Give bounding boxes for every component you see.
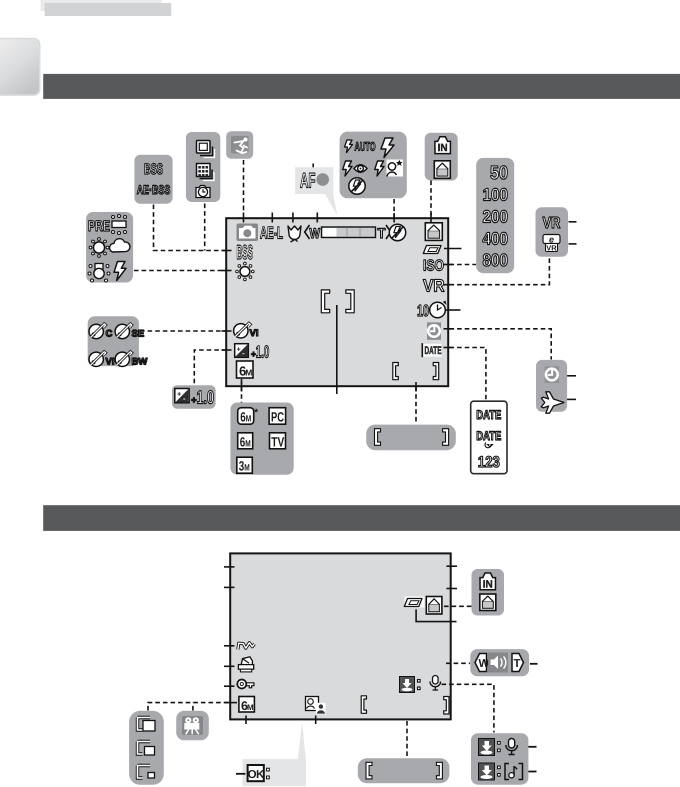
tick ISO row <box>444 264 454 266</box>
icon WB flash <box>114 262 126 281</box>
centre line below focus brackets <box>336 305 338 394</box>
wire BSS boxes to BSS row <box>154 204 227 251</box>
box BSS / AE-BSS <box>134 155 172 204</box>
box date imprint <box>471 401 507 474</box>
icon size PC <box>269 408 286 425</box>
icon interval timer <box>196 186 210 198</box>
svg-text:T: T <box>378 225 386 241</box>
exposure comp indicator <box>235 342 270 361</box>
svg-text:PC: PC <box>271 409 284 424</box>
tick WB row <box>222 270 232 272</box>
wire color-options box to row <box>140 330 227 332</box>
monitor screen 1 <box>226 218 448 386</box>
box image size options <box>230 403 293 475</box>
svg-text:TV: TV <box>271 434 284 449</box>
BSS indicator <box>237 242 254 264</box>
wire ISO to ISO box <box>450 264 477 266</box>
icon flash red-eye <box>343 161 367 176</box>
header small light bar <box>41 0 162 11</box>
svg-text:BSS: BSS <box>144 161 163 178</box>
svg-text:PRE: PRE <box>88 218 110 235</box>
svg-text:VR: VR <box>546 244 557 253</box>
tick 6M row screen2 <box>225 702 238 704</box>
wire exposure box to row <box>194 350 226 385</box>
AF focus bubble <box>295 167 337 216</box>
card indicator 2 <box>426 597 442 615</box>
icon size TV <box>270 433 286 450</box>
svg-text:VR: VR <box>543 215 561 232</box>
svg-text:+: + <box>237 346 241 353</box>
tick card column <box>430 213 432 223</box>
right edge tick b <box>447 588 458 590</box>
wire VR to VR box <box>450 258 550 285</box>
frame number brackets 2 <box>361 696 449 714</box>
svg-text:800: 800 <box>483 250 509 270</box>
svg-text:AUTO: AUTO <box>355 140 376 154</box>
print order indicator <box>238 657 253 672</box>
svg-text:*: * <box>254 408 258 419</box>
bottom tick below volume icon <box>315 716 317 725</box>
battery indicator <box>423 246 441 254</box>
wire 6M to size box <box>241 379 243 403</box>
wire sports-assist to mode icon <box>243 160 245 213</box>
box colour options <box>88 316 139 366</box>
icon SD card (box) <box>434 161 450 179</box>
image size indicator <box>237 361 254 379</box>
svg-text:1.0: 1.0 <box>256 342 269 361</box>
DATE indicator <box>422 343 442 357</box>
OK info bubble <box>243 722 306 787</box>
OK stub line <box>236 773 246 775</box>
left edge tick a <box>224 566 235 568</box>
icon size 3M <box>237 457 253 474</box>
AE-L indicator <box>260 224 283 243</box>
tick DATE row <box>444 347 454 349</box>
volume display icon <box>306 697 326 715</box>
header small gray bar <box>45 3 172 16</box>
svg-text:VI: VI <box>250 328 259 339</box>
tick BSS row <box>222 250 232 252</box>
wire flash box to flash icon <box>393 199 395 218</box>
left page tab <box>0 39 40 96</box>
box volume control <box>470 649 529 676</box>
transfer indicator <box>400 677 415 693</box>
volume stub line <box>530 663 538 665</box>
AF bubble stub <box>312 164 314 172</box>
tick 6M column <box>241 382 243 392</box>
self-timer stub line <box>445 309 461 311</box>
svg-text:AF: AF <box>300 170 316 193</box>
box VR / e-VR <box>536 207 569 256</box>
battery stub line <box>444 248 462 250</box>
svg-text:ISO: ISO <box>423 258 444 275</box>
zoom indicator <box>305 225 391 241</box>
tick above mode icon <box>243 213 245 223</box>
icon IN memory <box>435 137 451 154</box>
section bar 1 <box>43 74 680 99</box>
svg-text:T: T <box>514 658 521 670</box>
wire WB box to WB row <box>134 270 227 272</box>
svg-text:DATE: DATE <box>476 408 501 422</box>
tick count column <box>415 382 417 392</box>
svg-text:IN: IN <box>438 142 448 154</box>
icon clock (box) <box>545 366 560 383</box>
icon WB cloudy <box>110 239 130 252</box>
svg-text:SE: SE <box>132 329 145 340</box>
box voice memo <box>471 733 528 785</box>
icon flash auto <box>345 140 376 154</box>
svg-text:50: 50 <box>490 163 508 184</box>
box frame count <box>366 425 456 451</box>
icon small pic 2 <box>138 742 155 756</box>
left edge tick c <box>224 645 235 647</box>
tick above macro <box>292 213 294 223</box>
svg-text:DATE: DATE <box>476 429 501 443</box>
svg-text:W: W <box>479 658 490 670</box>
colour option indicator <box>234 323 259 339</box>
battery to card callout line <box>416 609 456 621</box>
icon WB daylight <box>89 238 109 258</box>
svg-text:AE-L: AE-L <box>260 224 283 243</box>
wire DATE to imprint box <box>450 348 486 401</box>
memo play stub <box>528 771 536 773</box>
icon WB fluorescent <box>112 215 127 235</box>
icon colour C <box>89 324 113 340</box>
svg-text:C: C <box>106 329 113 340</box>
icon memo play row <box>479 763 523 780</box>
section bar 2 <box>43 505 680 531</box>
wire mic row to memo box <box>442 684 494 732</box>
box continuous modes <box>186 132 220 202</box>
D-lighting indicator <box>238 643 255 650</box>
time not set indicator <box>427 322 441 340</box>
box white balance <box>86 212 133 283</box>
tick colour row <box>222 330 232 332</box>
tick VR row <box>444 284 454 286</box>
icon multi-shot 16 <box>197 164 215 181</box>
self-timer indicator <box>417 301 447 321</box>
icon flash slow-sync <box>375 160 403 177</box>
icon colour BW <box>115 352 147 368</box>
box small picture sizes <box>129 711 164 785</box>
svg-text:+: + <box>177 390 182 399</box>
box movie <box>176 711 209 741</box>
icon small pic 1 <box>138 718 156 732</box>
icon IN memory 2 <box>480 573 496 590</box>
icon colour SE <box>115 324 144 340</box>
tick flash column <box>393 213 395 223</box>
wire 6M row to small-picture boxes <box>148 703 230 711</box>
box scene assist (sports) <box>226 131 253 159</box>
left edge tick d <box>224 665 235 667</box>
tick above AE-L <box>271 213 273 223</box>
tick above zoom indicator <box>316 213 318 223</box>
monitor screen 2 <box>230 553 451 719</box>
box frame count 2 <box>358 758 450 783</box>
wire IN/SD box to card icon <box>430 181 432 219</box>
VR indicator <box>423 276 445 296</box>
box exposure compensation <box>172 385 216 408</box>
svg-text:VR: VR <box>423 276 445 296</box>
world-time stub lines <box>567 376 576 400</box>
svg-text:1.0: 1.0 <box>197 386 215 407</box>
icon memo record row <box>479 739 518 756</box>
shooting mode icon <box>237 224 259 242</box>
image size indicator 2 <box>239 697 255 713</box>
icon flash off <box>349 178 365 194</box>
microphone indicator <box>430 676 441 691</box>
svg-text:VI: VI <box>106 356 115 367</box>
icon flash on <box>381 138 394 158</box>
svg-text:10: 10 <box>417 303 429 320</box>
svg-text:IN: IN <box>483 578 493 590</box>
box world time / airplane <box>536 360 567 412</box>
svg-text:123: 123 <box>478 454 500 471</box>
icon WB incandescent <box>88 264 110 283</box>
card indicator <box>425 223 442 241</box>
svg-text:400: 400 <box>483 229 509 249</box>
ISO indicator <box>423 258 444 275</box>
svg-text:BSS: BSS <box>237 242 254 264</box>
white balance indicator <box>236 262 255 281</box>
flash-off indicator <box>389 224 405 240</box>
wire card to IN/SD box <box>444 605 472 607</box>
focus brackets <box>321 290 354 313</box>
box flash modes <box>340 132 407 199</box>
left edge tick e <box>224 685 235 687</box>
icon airplane <box>541 392 564 413</box>
box IN / SD memory <box>425 133 458 181</box>
icon size 6M <box>238 433 253 450</box>
svg-text:AE·BSS: AE·BSS <box>137 183 171 197</box>
bottom tick below 6M <box>245 716 247 725</box>
tick exposure row <box>222 349 232 351</box>
icon continuous <box>197 141 215 158</box>
memo record stub <box>528 746 536 748</box>
right edge tick a <box>447 565 458 567</box>
macro close-up icon <box>288 226 301 242</box>
icon colour VI <box>89 352 114 368</box>
VR stub lines <box>569 222 577 244</box>
icon size 6M-star <box>238 408 259 425</box>
svg-text:W: W <box>310 225 321 241</box>
box ISO sensitivity <box>476 158 514 273</box>
memo colon <box>418 680 421 690</box>
wire volume row to volume box <box>446 662 470 664</box>
wire frame brackets to count box <box>406 721 408 758</box>
svg-text:DATE: DATE <box>425 345 442 357</box>
icon SD card 2 <box>480 594 496 611</box>
icon small pic 3 <box>138 766 155 779</box>
left edge tick b <box>224 586 235 588</box>
svg-text:200: 200 <box>483 207 509 227</box>
tick clock row <box>444 328 454 330</box>
exposure count brackets <box>393 363 439 380</box>
box IN / SD 2 <box>472 569 505 616</box>
wire frame-count to box <box>415 387 417 425</box>
battery indicator 2 <box>404 597 424 608</box>
wire clock icon to world-time box <box>450 329 552 360</box>
svg-text:OK: OK <box>248 769 265 781</box>
svg-text:BW: BW <box>132 356 148 367</box>
protect indicator <box>237 680 254 689</box>
svg-text:100: 100 <box>483 185 509 205</box>
